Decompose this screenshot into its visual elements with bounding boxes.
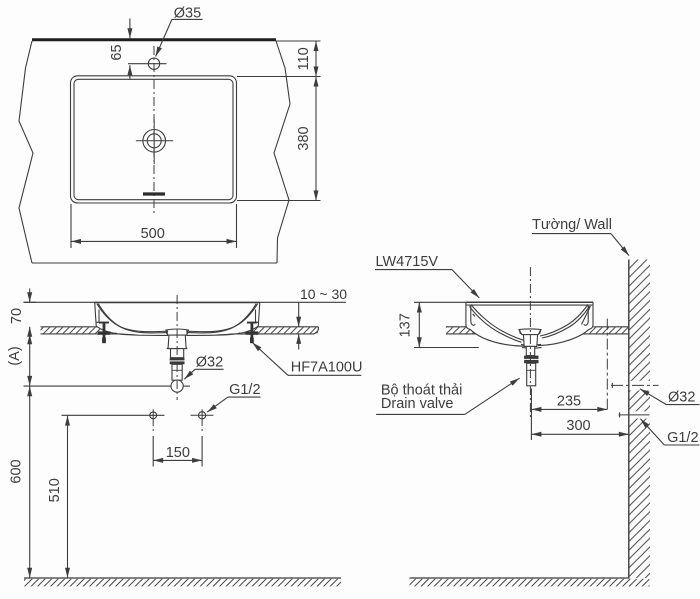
dim 235	[531, 408, 607, 410]
supply point right	[199, 412, 206, 419]
svg-text:600: 600	[9, 459, 25, 483]
counter slab right end cap	[314, 327, 319, 334]
drain tail pipe (front)	[172, 364, 182, 380]
bowl interior curve right (side)	[540, 305, 588, 337]
dim 137 extension lines	[414, 302, 479, 347]
dim 235 left extension	[530, 389, 532, 441]
floor hatch (left view)	[24, 579, 341, 587]
svg-text:Ø32: Ø32	[196, 354, 223, 370]
dim 500	[71, 240, 237, 242]
G1/2 wall stub white gap	[618, 411, 652, 418]
svg-text:Ø32: Ø32	[668, 390, 695, 406]
drain crosshair	[136, 140, 173, 142]
svg-text:Drain valve: Drain valve	[381, 396, 454, 412]
supply point left	[150, 412, 157, 419]
bowl exterior bottom curve left	[97, 327, 168, 336]
basin right rim section triangle	[256, 310, 259, 323]
counter bottom edge	[32, 262, 277, 264]
dim 137	[418, 303, 420, 348]
svg-text:LW4715V: LW4715V	[376, 254, 439, 270]
overflow slot	[143, 192, 165, 195]
bowl exterior bottom curve right	[187, 327, 258, 336]
dim 380	[315, 77, 317, 201]
bowl exterior curve right (side)	[538, 329, 589, 345]
svg-text:500: 500	[141, 226, 165, 242]
drain body (front)	[167, 335, 186, 349]
centerline vertical (plan)	[153, 46, 155, 216]
drain centerline (front)	[176, 295, 178, 400]
basin body white fill (side)	[466, 302, 594, 346]
left wall (side section)	[466, 302, 470, 329]
bowl interior curve left	[97, 304, 167, 332]
fixing bolt left (HF7A100U)	[98, 322, 111, 344]
bowl bottom behind drain	[521, 343, 541, 346]
floor line (right view)	[410, 577, 630, 579]
counter break line left	[19, 41, 33, 263]
svg-text:235: 235	[557, 393, 581, 409]
counter slab outline (side)	[446, 327, 629, 334]
svg-text:Tường/ Wall: Tường/ Wall	[532, 217, 612, 233]
counter slab (side view) hatch	[446, 327, 629, 333]
trap reference line (A)	[24, 385, 172, 387]
dim 110 extension lines	[237, 41, 321, 201]
dim (A)	[29, 334, 31, 386]
dim 150	[153, 459, 202, 461]
svg-text:380: 380	[296, 126, 312, 150]
svg-text:137: 137	[397, 313, 413, 337]
left section tick	[473, 314, 475, 317]
svg-text:300: 300	[566, 418, 590, 434]
drain lock nut (front, dark)	[170, 358, 185, 365]
counter break line right	[274, 41, 290, 263]
dim 235 extension (wall offset dash line)	[606, 319, 608, 410]
drain hole (plan)	[143, 130, 166, 153]
basin left rim section triangle	[97, 310, 100, 323]
G1/2 wall stub	[619, 412, 621, 417]
svg-text:10 ~ 30: 10 ~ 30	[300, 286, 347, 302]
drain lock nut (side, dark)	[524, 356, 538, 364]
dim 65	[129, 19, 131, 39]
basin rim inner (plan)	[74, 79, 233, 199]
drain tail Ø32 circle	[171, 380, 183, 392]
Ø32 wall stub	[611, 383, 613, 388]
counter slab (front view) hatch	[41, 327, 319, 333]
right wall (side section)	[589, 302, 593, 329]
dim 600	[29, 386, 31, 577]
dim 150 extension lines	[153, 436, 202, 467]
wall face line	[628, 260, 630, 579]
basin right wall	[257, 302, 260, 327]
floor line (left view)	[24, 577, 341, 579]
svg-text:70: 70	[9, 308, 25, 324]
rim line long (front, includes 10~30 leader underline)	[24, 301, 346, 303]
svg-text:150: 150	[166, 445, 190, 461]
faucet hole tick	[128, 63, 167, 65]
svg-text:(A): (A)	[7, 346, 23, 365]
counter front edge (thick line)	[32, 38, 276, 41]
basin left wall	[95, 302, 98, 327]
fixing bolt right (HF7A100U)	[246, 322, 259, 344]
svg-text:HF7A100U: HF7A100U	[291, 359, 363, 375]
wall hatch	[629, 260, 650, 579]
basin rim top (side)	[466, 301, 594, 303]
svg-text:510: 510	[47, 478, 63, 502]
svg-text:65: 65	[109, 44, 125, 60]
faucet hole Ø35	[148, 58, 159, 69]
dim 500 extension lines	[71, 204, 237, 248]
Ø32 wall stub white gap	[611, 381, 658, 391]
drain body (side)	[523, 335, 537, 347]
bowl exterior curve left (side)	[470, 329, 524, 346]
dim 300	[531, 433, 628, 435]
drain tail pipe (side)	[527, 363, 536, 386]
basin rim outer (plan)	[71, 76, 237, 203]
drain neck (side)	[526, 346, 534, 355]
dim 510 extension	[62, 414, 165, 416]
floor hatch (right view)	[410, 579, 650, 587]
svg-text:G1/2: G1/2	[667, 430, 698, 446]
drain neck (front)	[171, 349, 184, 358]
dim 70	[29, 289, 31, 303]
svg-text:110: 110	[296, 47, 312, 70]
bowl interior curve left (side)	[471, 305, 524, 341]
right rim section triangle	[582, 306, 591, 325]
drain pop-up cap (side)	[519, 329, 541, 335]
svg-text:G1/2: G1/2	[229, 382, 260, 398]
counter slab outline	[41, 327, 319, 334]
basin body white fill (front)	[95, 302, 261, 335]
dim 110	[315, 41, 317, 77]
drain centerline (side)	[529, 267, 531, 420]
dim 510	[67, 416, 69, 578]
bowl interior curve right	[188, 304, 258, 332]
supply centerlines down	[153, 421, 202, 431]
drain pop-up cap (front)	[166, 329, 189, 335]
